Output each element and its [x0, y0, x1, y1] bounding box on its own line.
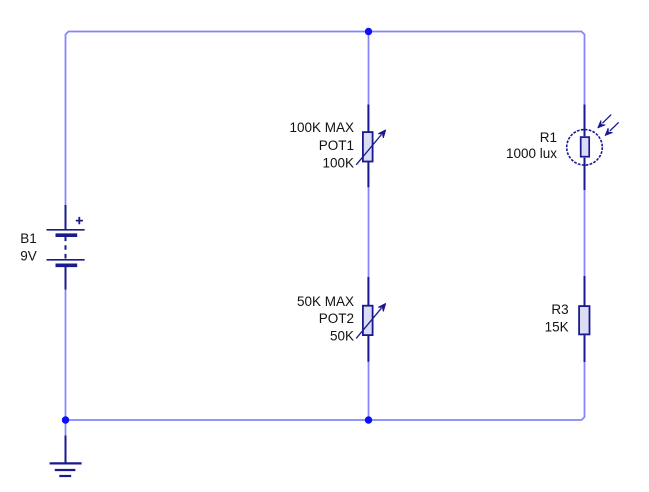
svg-text:9V: 9V	[20, 248, 37, 263]
svg-text:POT2: POT2	[319, 311, 354, 326]
svg-text:100K: 100K	[322, 156, 354, 171]
svg-text:50K: 50K	[330, 329, 354, 344]
svg-text:R3: R3	[551, 302, 568, 317]
svg-text:15K: 15K	[545, 319, 569, 334]
svg-text:B1: B1	[20, 231, 37, 246]
svg-text:R1: R1	[540, 130, 557, 145]
svg-text:100K MAX: 100K MAX	[289, 120, 354, 135]
svg-text:POT1: POT1	[319, 138, 354, 153]
svg-text:1000 lux: 1000 lux	[506, 146, 557, 161]
svg-text:50K MAX: 50K MAX	[297, 294, 354, 309]
